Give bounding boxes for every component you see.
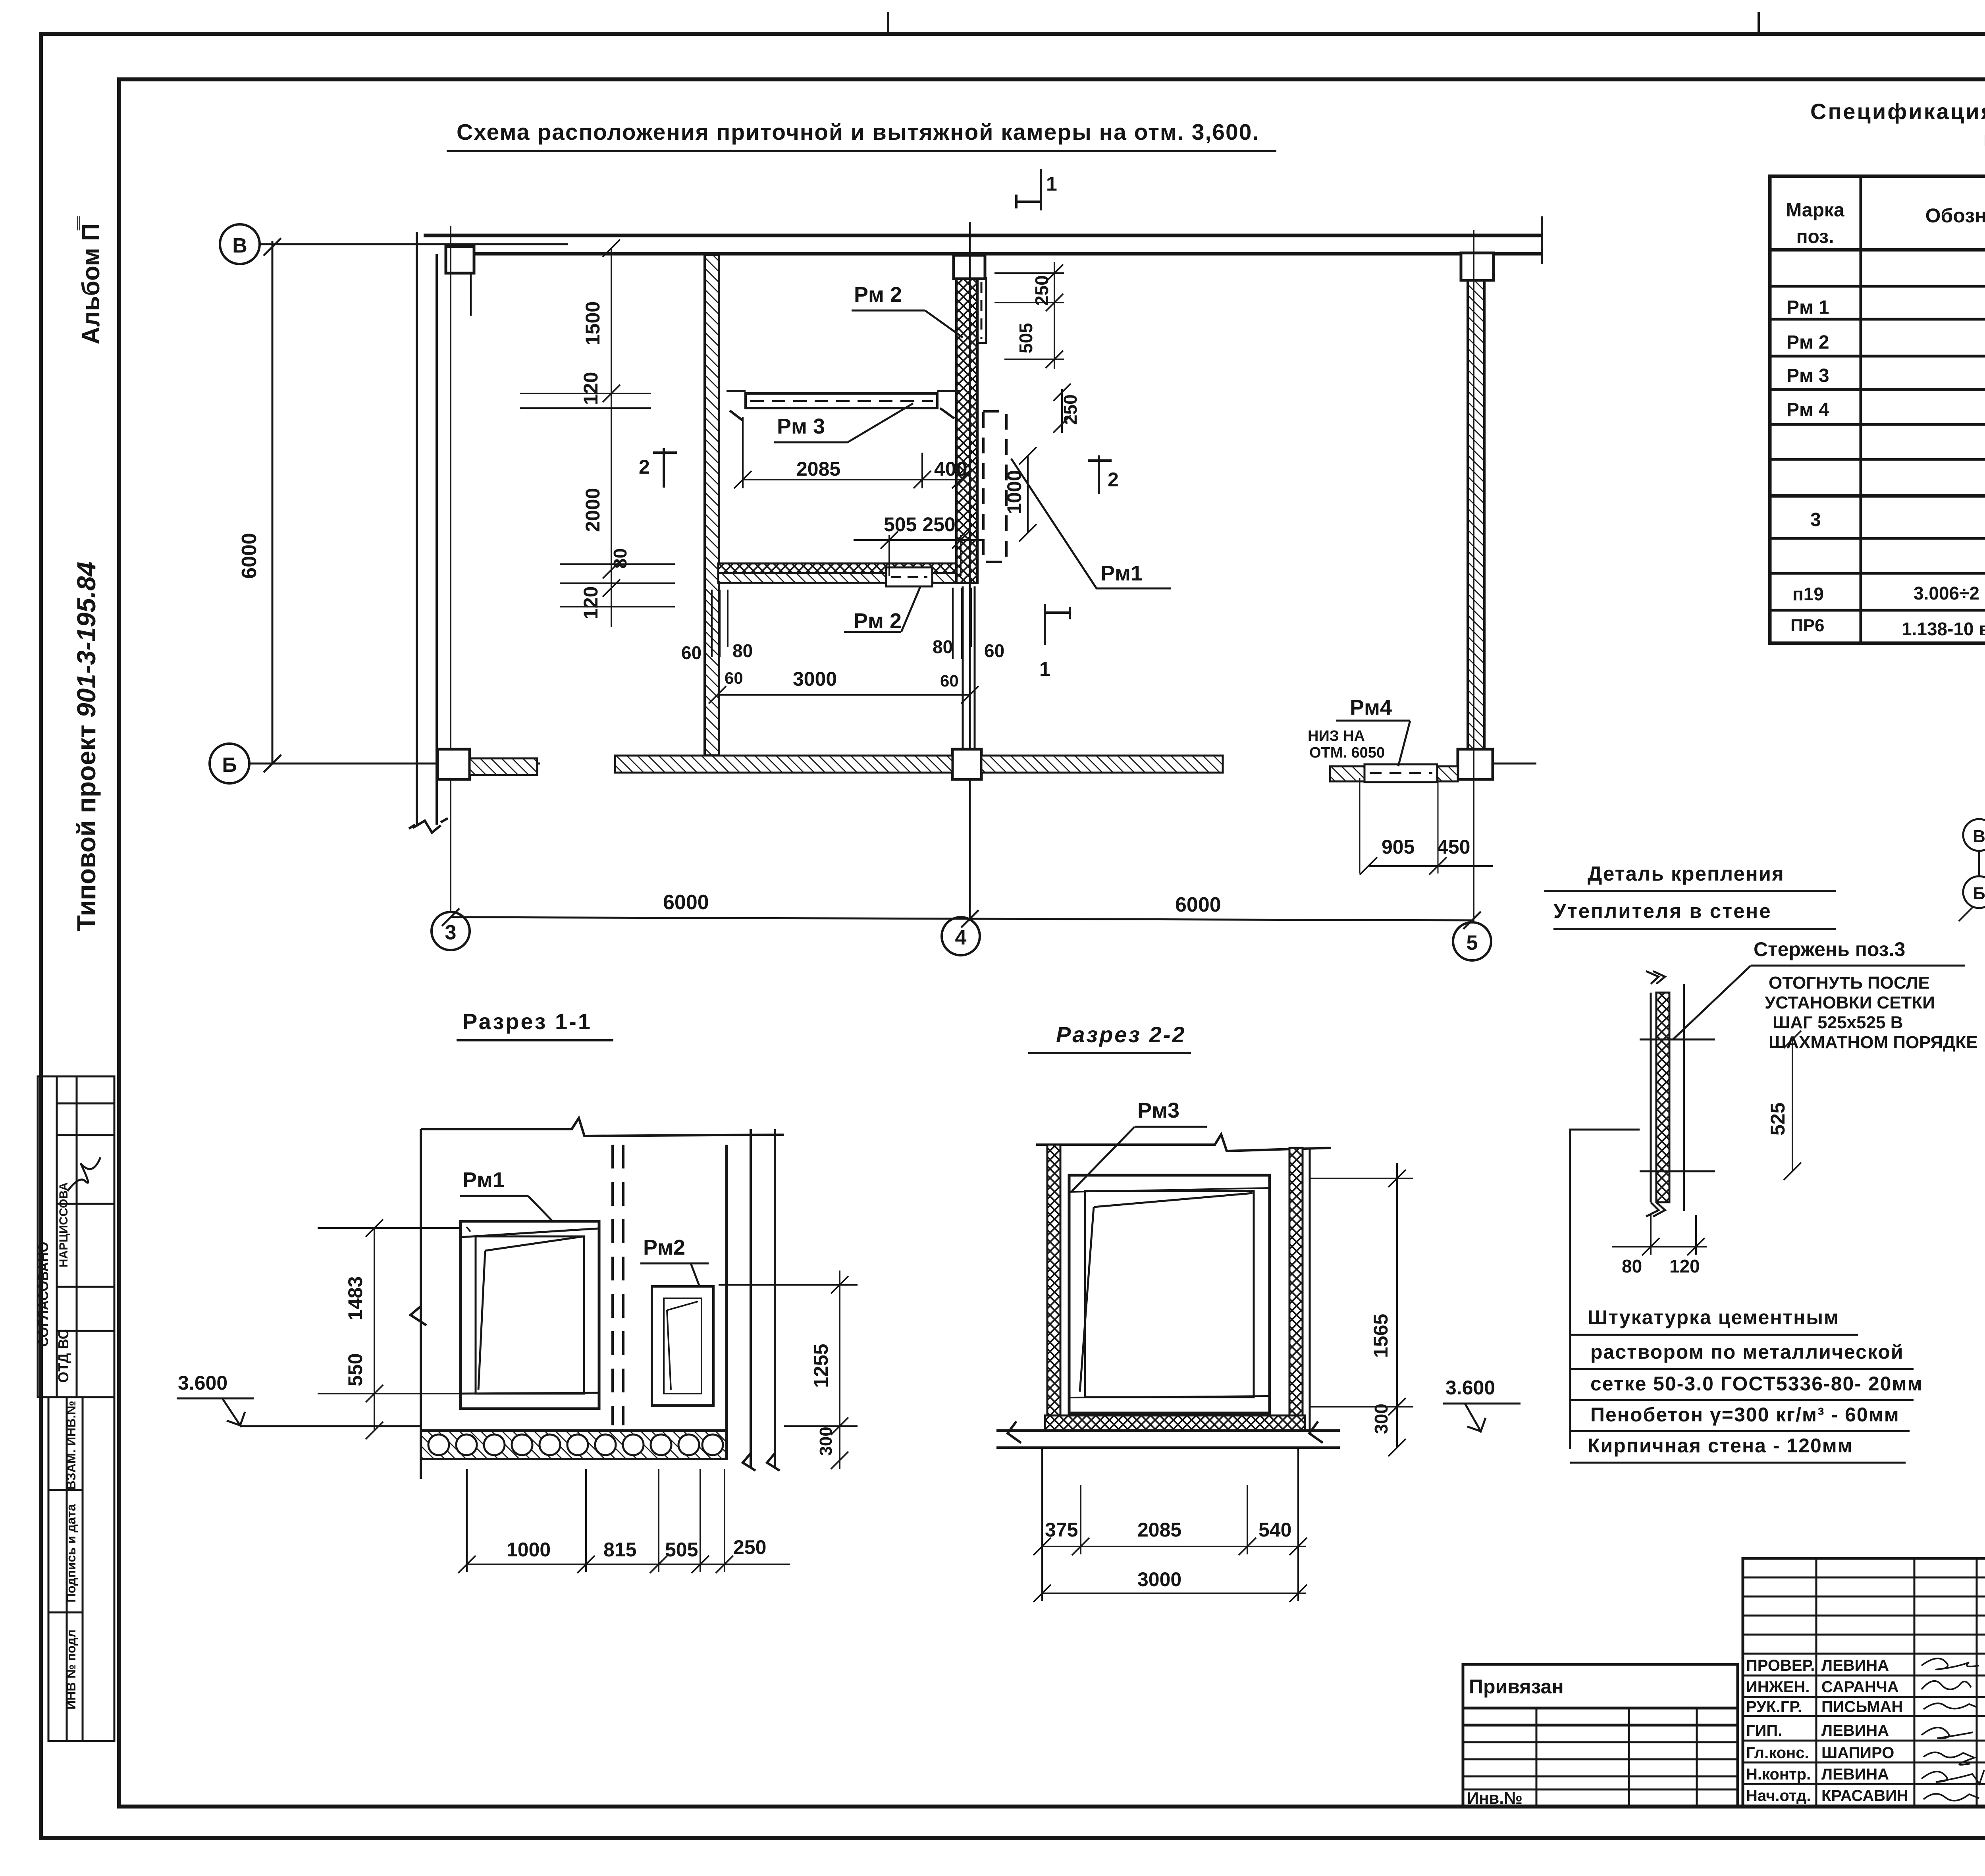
svg-text:450: 450 [1437, 836, 1470, 858]
svg-text:3.600: 3.600 [178, 1372, 227, 1394]
svg-text:СОГЛАСОВАНО: СОГЛАСОВАНО [36, 1242, 51, 1347]
svg-text:Утеплителя в стене: Утеплителя в стене [1553, 900, 1772, 922]
svg-text:1000: 1000 [1003, 470, 1025, 514]
svg-text:80: 80 [1622, 1256, 1642, 1276]
room right wall [956, 276, 977, 583]
svg-text:1500: 1500 [582, 301, 604, 345]
svg-text:250: 250 [733, 1536, 766, 1558]
svg-text:раствором по металлической: раствором по металлической [1590, 1341, 1904, 1363]
svg-text:поз.: поз. [1796, 226, 1834, 247]
svg-text:Рм3: Рм3 [1137, 1099, 1179, 1122]
svg-text:Привязан: Привязан [1469, 1675, 1564, 1698]
svg-text:Деталь крепления: Деталь крепления [1588, 862, 1785, 885]
svg-text:Разрез 1-1: Разрез 1-1 [463, 1009, 592, 1034]
svg-text:ОТМ. 6050: ОТМ. 6050 [1309, 744, 1385, 761]
svg-text:80: 80 [610, 548, 630, 569]
axis4 column at Bb [952, 749, 981, 779]
svg-text:3000: 3000 [793, 668, 837, 690]
axis4 column top [954, 255, 985, 279]
svg-text:1483: 1483 [344, 1276, 366, 1320]
svg-text:ШАПИРО: ШАПИРО [1821, 1744, 1894, 1762]
r22 floor line [996, 1421, 1340, 1448]
svg-text:120: 120 [580, 586, 602, 619]
axis 5 vertical line [1473, 230, 1474, 923]
svg-text:3: 3 [445, 921, 457, 944]
svg-text:Альбом П̿: Альбом П̿ [77, 216, 105, 344]
axis 5 circle [1453, 922, 1491, 960]
r11 top wall line [410, 1118, 784, 1479]
svg-text:6000: 6000 [663, 891, 709, 914]
r11 Pm1 frame [461, 1221, 599, 1409]
svg-text:1255: 1255 [810, 1344, 832, 1388]
svg-text:550: 550 [344, 1353, 366, 1386]
svg-text:375: 375 [1045, 1519, 1078, 1541]
svg-text:ВЗАМ. ИНВ.№: ВЗАМ. ИНВ.№ [64, 1401, 78, 1490]
svg-text:Рм1: Рм1 [463, 1168, 505, 1192]
sidebar upper stamp box [38, 1076, 114, 1397]
svg-text:Схема расположения приточно: Схема расположения приточной и вытяжной … [457, 120, 1259, 145]
svg-text:ИНЖЕН.: ИНЖЕН. [1746, 1678, 1810, 1696]
axis Bb circle [210, 744, 249, 783]
svg-text:ПИСЬМАН: ПИСЬМАН [1821, 1698, 1903, 1716]
svg-text:Рм 2: Рм 2 [854, 283, 902, 307]
axis V circle shakhta [1963, 819, 1985, 851]
specification table grid [1770, 176, 1985, 643]
svg-text:ПРОВЕР.: ПРОВЕР. [1746, 1657, 1815, 1674]
svg-text:905: 905 [1382, 836, 1415, 858]
r22 bottom strip [1045, 1415, 1305, 1431]
svg-text:Обозначение: Обозначение [1925, 204, 1985, 227]
staff rows text [1746, 1657, 1908, 1805]
sidebar lower stamp box [48, 1397, 114, 1741]
detail pin lines [1640, 1039, 1715, 1171]
detail bracket line [1570, 1130, 1640, 1449]
section mark 1 bottom [1045, 604, 1070, 645]
svg-text:Рм 3: Рм 3 [777, 415, 825, 438]
svg-text:3000: 3000 [1137, 1568, 1181, 1591]
svg-text:сетке 50-3.0 ГОСТ5336-80-: сетке 50-3.0 ГОСТ5336-80- 20мм [1590, 1373, 1923, 1395]
dim 6000 bottom row [442, 908, 1481, 929]
left dim chain line [520, 239, 675, 627]
svg-text:1565: 1565 [1370, 1314, 1392, 1358]
privyazan box [1463, 1664, 1738, 1807]
svg-text:6000: 6000 [1175, 893, 1221, 916]
svg-text:ЛЕВИНА: ЛЕВИНА [1821, 1657, 1889, 1674]
svg-text:3.600: 3.600 [1445, 1377, 1495, 1399]
svg-text:120: 120 [580, 372, 602, 405]
svg-text:Марка: Марка [1786, 200, 1844, 221]
svg-text:Спецификация к схеме пр: Спецификация к схеме приточной и [1810, 99, 1985, 124]
r11 floor slab [421, 1431, 727, 1459]
r11 right wall lines [727, 1129, 780, 1471]
svg-text:2000: 2000 [582, 488, 604, 532]
svg-text:2085: 2085 [796, 458, 840, 480]
svg-text:КРАСАВИН: КРАСАВИН [1821, 1787, 1908, 1805]
detail wall layers [1646, 971, 1684, 1217]
r22 Pm3 frame [1069, 1175, 1270, 1413]
svg-text:ОТД ВС: ОТД ВС [55, 1329, 71, 1382]
svg-text:Рм 4: Рм 4 [1786, 399, 1829, 420]
staff table grid [1743, 1558, 1985, 1807]
svg-text:505 250: 505 250 [884, 513, 956, 536]
axis B circle shakhta [1963, 876, 1985, 908]
svg-text:250: 250 [1060, 394, 1081, 425]
r22 left wall [1047, 1145, 1060, 1431]
svg-text:60: 60 [940, 671, 959, 690]
svg-text:Рм 3: Рм 3 [1786, 365, 1829, 386]
svg-text:Б: Б [222, 754, 237, 777]
svg-text:ОТОГНУТЬ ПОСЛЕ: ОТОГНУТЬ ПОСЛЕ [1769, 973, 1930, 993]
svg-text:В: В [232, 234, 247, 257]
svg-text:ШАГ 525х525 В: ШАГ 525х525 В [1773, 1013, 1903, 1032]
svg-text:Рм 2: Рм 2 [854, 609, 902, 633]
partition wall hatched [705, 255, 719, 756]
svg-text:2: 2 [1108, 469, 1119, 491]
svg-text:ИНВ № подл: ИНВ № подл [64, 1629, 78, 1710]
svg-text:Подпись и дата: Подпись и дата [64, 1504, 78, 1602]
svg-text:2085: 2085 [1137, 1519, 1181, 1541]
svg-text:В: В [1973, 827, 1985, 846]
svg-text:УСТАНОВКИ СЕТКИ: УСТАНОВКИ СЕТКИ [1765, 993, 1935, 1012]
svg-text:120: 120 [1669, 1256, 1700, 1276]
svg-text:НАРЦИССОВА: НАРЦИССОВА [57, 1182, 70, 1268]
svg-text:Рм 2: Рм 2 [1786, 332, 1829, 353]
svg-text:1: 1 [1046, 173, 1057, 195]
axis5 column bottom [1458, 749, 1493, 779]
r22 top line [1036, 1134, 1331, 1151]
axis B line [260, 243, 568, 245]
svg-text:250: 250 [1031, 275, 1052, 306]
svg-text:Рм4: Рм4 [1350, 696, 1392, 719]
dim 6000 vertical left [264, 238, 281, 772]
axis B circle [220, 224, 260, 264]
svg-text:1000: 1000 [507, 1539, 551, 1561]
svg-text:Пенобетон γ=300 кг/м³ - 60: Пенобетон γ=300 кг/м³ - 60мм [1590, 1404, 1900, 1426]
svg-text:80: 80 [933, 636, 953, 657]
svg-text:ШАХМАТНОМ ПОРЯДКЕ: ШАХМАТНОМ ПОРЯДКЕ [1769, 1033, 1978, 1052]
svg-text:Стержень поз.3: Стержень поз.3 [1754, 938, 1905, 960]
axis5 wall hatched [1468, 280, 1484, 749]
svg-text:Н.контр.: Н.контр. [1746, 1766, 1811, 1783]
r22 right wall [1289, 1148, 1303, 1431]
svg-text:Типовой проект 901-3-195.84: Типовой проект 901-3-195.84 [71, 561, 101, 931]
svg-text:60: 60 [725, 669, 743, 687]
svg-text:3.006÷2: 3.006÷2 [1914, 583, 1979, 603]
svg-text:1: 1 [1039, 658, 1050, 680]
svg-text:505: 505 [665, 1539, 698, 1561]
top wall end tick [1541, 216, 1543, 264]
svg-text:1.138-10 вып.1: 1.138-10 вып.1 [1902, 619, 1985, 639]
plan top wall [424, 235, 1542, 254]
floor strip a [470, 758, 537, 775]
svg-text:ЛЕВИНА: ЛЕВИНА [1821, 1722, 1889, 1739]
svg-text:Рм1: Рм1 [1100, 561, 1143, 585]
svg-text:Кирпичная стена - 120м: Кирпичная стена - 120мм [1588, 1434, 1853, 1457]
embedded Pm2 bottom dashed [886, 567, 932, 586]
axis 3 circle [432, 912, 470, 950]
svg-text:80: 80 [732, 640, 753, 661]
axis3 column at Bb [437, 749, 470, 779]
svg-text:ПР6: ПР6 [1790, 616, 1824, 635]
axis Bb line [249, 763, 540, 765]
axis5 column top [1461, 253, 1494, 280]
registration marks top [888, 12, 1759, 35]
svg-text:300: 300 [816, 1427, 836, 1456]
r11 dashed axis lines [613, 1145, 623, 1425]
svg-text:400: 400 [934, 458, 967, 480]
dim line 2085 [734, 417, 969, 488]
axis B column [446, 247, 474, 273]
line between circles [1978, 851, 1980, 876]
embedded Pm1 dashed [983, 411, 1006, 562]
svg-text:60: 60 [984, 640, 1004, 661]
r11 Pm2 frame [652, 1286, 713, 1406]
svg-text:ГИП.: ГИП. [1746, 1722, 1782, 1739]
svg-text:ЛЕВИНА: ЛЕВИНА [1821, 1766, 1889, 1783]
svg-text:РУК.ГР.: РУК.ГР. [1746, 1698, 1802, 1716]
svg-text:Нач.отд.: Нач.отд. [1746, 1787, 1811, 1805]
wall below room right [963, 586, 975, 754]
svg-text:Рм2: Рм2 [643, 1236, 685, 1259]
svg-text:Гл.конс.: Гл.конс. [1746, 1744, 1809, 1762]
axis Bb line right [1493, 763, 1536, 765]
svg-text:САРАНЧА: САРАНЧА [1821, 1678, 1899, 1696]
svg-text:815: 815 [603, 1539, 636, 1561]
floor strip c [981, 756, 1223, 773]
svg-text:Б: Б [1973, 884, 1985, 903]
section mark 2 right [1088, 455, 1112, 494]
axis 4 vertical line [969, 222, 971, 921]
plan left wall [409, 232, 448, 833]
svg-text:2: 2 [639, 456, 650, 478]
section mark 1 top [1016, 169, 1041, 210]
room bottom wall [718, 563, 977, 573]
svg-text:700: 700 [1982, 1124, 1985, 1153]
svg-text:п19: п19 [1792, 584, 1824, 604]
sidebar signature squiggle [67, 1157, 100, 1191]
svg-text:540: 540 [1258, 1519, 1291, 1541]
floor strip b [615, 756, 952, 773]
svg-text:4: 4 [955, 926, 967, 949]
svg-text:Разрез 2-2: Разрез 2-2 [1056, 1022, 1186, 1047]
svg-text:300: 300 [1371, 1404, 1391, 1434]
svg-text:60: 60 [681, 642, 701, 663]
svg-text:6000: 6000 [238, 533, 261, 579]
axis 4 circle [942, 917, 980, 955]
floor strip d with Pm4 [1330, 766, 1364, 781]
svg-text:вытяжной камере: вытяжной камере [1983, 127, 1985, 151]
svg-text:Рм 1: Рм 1 [1786, 297, 1829, 318]
embedded Pm2 top [977, 278, 986, 343]
svg-text:3: 3 [1810, 509, 1821, 530]
svg-text:НИЗ НА: НИЗ НА [1308, 728, 1365, 744]
svg-text:Штукатурка цементным: Штукатурка цементным [1588, 1306, 1839, 1328]
signatures [1921, 1658, 1984, 1801]
svg-text:525: 525 [1767, 1103, 1789, 1136]
Pm3 plate bar [727, 391, 961, 421]
svg-text:5: 5 [1467, 931, 1478, 954]
svg-text:Инв.№: Инв.№ [1467, 1789, 1522, 1807]
svg-text:505: 505 [1016, 323, 1036, 353]
tick marks 60-80 left [712, 588, 971, 659]
